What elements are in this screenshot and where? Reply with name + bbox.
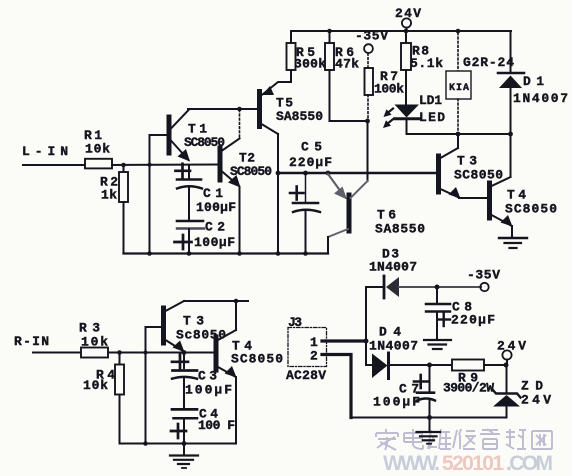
junction dot relay row [456, 132, 461, 137]
svg-text:T3: T3 [457, 154, 477, 169]
watermark URL [383, 452, 554, 475]
ground T4 emitter [499, 238, 527, 248]
svg-text:100 F: 100 F [198, 418, 235, 433]
node 24V right terminal [497, 339, 526, 366]
wire T1 base vertical [149, 135, 151, 254]
svg-text:C5: C5 [301, 140, 322, 155]
svg-text:LED: LED [419, 110, 445, 125]
LED emission arrows [387, 109, 393, 114]
relay KIA box [446, 71, 471, 99]
svg-text:SC8050: SC8050 [454, 168, 503, 183]
connector J3 dashed box [288, 328, 327, 367]
svg-text:100k: 100k [374, 82, 404, 97]
resistor R6 [325, 43, 334, 70]
junction dot C8 tap [435, 285, 440, 290]
zener diode ZD [493, 365, 521, 418]
svg-text:T4: T4 [507, 188, 526, 203]
node -35V right terminal [467, 268, 500, 292]
svg-text:220µF: 220µF [451, 313, 495, 328]
svg-text:WWW.: WWW. [383, 452, 441, 475]
wire R8 top stub [405, 31, 407, 43]
transistor T4 lower-left [216, 330, 237, 444]
wire -35V terminal to R7 (dashed) [367, 54, 369, 69]
junction dot base vertical / lower rail [143, 441, 148, 446]
svg-text:-35V: -35V [355, 29, 388, 44]
junction dot C5 / rail [303, 251, 308, 256]
transistor T3 upper-right [439, 134, 461, 199]
wire T4 collector riser lower [235, 301, 237, 330]
junction dot 24V/top rail [404, 29, 409, 34]
svg-text:1N4007: 1N4007 [369, 260, 417, 275]
svg-text:100µF: 100µF [194, 235, 235, 250]
capacitor C8 [426, 287, 450, 339]
node -35V terminal top [355, 29, 388, 53]
resistor R3 [81, 348, 108, 358]
junction dot pin1 / feed vertical [364, 339, 369, 344]
resistor R2 [119, 165, 128, 254]
wire R-IN input [33, 352, 81, 354]
junction dot base vertical / R-IN wire [144, 351, 148, 355]
resistor R4 [115, 353, 124, 444]
wire lower collector top wire [184, 300, 248, 302]
junction dot base vertical / input wire [148, 163, 152, 167]
svg-text:AC28V: AC28V [286, 368, 326, 383]
svg-text:LD1: LD1 [419, 93, 442, 108]
wire D3/D4 feed vertical [365, 287, 367, 365]
junction dot R6/R7/T6 node [365, 119, 370, 124]
junction dot R4 tap [117, 350, 122, 355]
svg-text:24V: 24V [521, 393, 551, 408]
svg-text:T6: T6 [377, 208, 396, 223]
wire pin 1 lead [322, 339, 366, 342]
wire R6 top stub [329, 31, 331, 43]
junction dot C7 tap [427, 363, 432, 368]
junction dot base vertical / rail [147, 251, 152, 256]
wire R1 to T2 base [112, 164, 219, 167]
wire ground rail upper-left [124, 252, 329, 254]
junction dot R6/top rail [327, 29, 332, 34]
LED LD1 [383, 105, 420, 135]
svg-text:10k: 10k [85, 142, 110, 157]
junction dot C4 / lower rail [182, 441, 187, 446]
wire R8 bottom to LED [405, 70, 407, 104]
svg-text:L-IN: L-IN [22, 144, 68, 159]
wire ground rail lower-left [120, 443, 237, 445]
svg-text:T3: T3 [183, 314, 204, 329]
wire R5 bottom to T5 emitter [290, 70, 292, 82]
svg-text:SA8550: SA8550 [375, 222, 425, 237]
wire T2 collector riser (dotted) [239, 110, 241, 139]
wire T3 base vertical lower [145, 327, 147, 444]
svg-text:3900/2W: 3900/2W [443, 381, 494, 396]
junction dot T6 / mid wire [326, 171, 331, 176]
svg-text:.COM: .COM [506, 452, 554, 475]
wire top supply rail [291, 30, 511, 32]
capacitor C4 [171, 409, 197, 443]
junction dot T2 collector / top wire [237, 107, 242, 112]
junction dot T5 collector / rail [276, 251, 281, 256]
svg-text:1k: 1k [101, 188, 117, 203]
svg-text:D1: D1 [523, 74, 544, 89]
capacitor C3 [172, 353, 197, 409]
capacitor C5 [290, 173, 320, 254]
svg-text:R-IN: R-IN [14, 334, 49, 349]
svg-text:300k: 300k [294, 57, 326, 72]
svg-text:KIA: KIA [449, 83, 469, 94]
junction dot T2 emitter / rail [237, 251, 242, 256]
capacitor C7 [414, 365, 435, 431]
resistor R8 [401, 43, 411, 70]
junction dot C2 / rail [187, 251, 192, 256]
wire node down to T6 collector [367, 121, 369, 181]
capacitor C2 [175, 221, 205, 254]
svg-text:-35V: -35V [467, 268, 500, 283]
transistor T1 [150, 110, 191, 162]
wire T3 emitter to T4 base [459, 197, 488, 199]
transistor T5 [240, 82, 292, 254]
svg-text:520101: 520101 [442, 452, 505, 475]
svg-text:47k: 47k [335, 57, 359, 72]
svg-text:5.1k: 5.1k [410, 56, 443, 71]
svg-text:SC8050: SC8050 [231, 352, 283, 367]
resistor R9 [452, 360, 484, 371]
wire bottom supply rail [351, 417, 506, 419]
wire R9 to 24V node [484, 364, 506, 366]
ground C7 [417, 432, 441, 444]
wire L-IN input [23, 164, 85, 166]
capacitor C1 [176, 164, 203, 220]
wire R7 bottom to node (dashed) [367, 95, 369, 119]
svg-text:24V: 24V [497, 339, 526, 354]
junction dot D1 row [508, 132, 513, 137]
svg-text:1N4007: 1N4007 [369, 339, 418, 354]
junction dot ZD node [504, 363, 509, 368]
svg-text:D4: D4 [379, 325, 401, 340]
svg-text:10k: 10k [83, 378, 108, 393]
junction dot relay/top rail [456, 29, 461, 34]
resistor R5 [287, 43, 296, 70]
transistor T3 lower-left [146, 301, 185, 352]
svg-text:100µF: 100µF [185, 383, 232, 398]
resistor R7 [365, 68, 374, 95]
svg-text:SC8050: SC8050 [230, 164, 272, 179]
wire main mid signal wire [278, 172, 437, 174]
svg-text:24V: 24V [395, 6, 421, 21]
transistor T4 upper-right [490, 134, 513, 237]
wire R3 to T4 base [108, 352, 214, 354]
junction dot C7 / bottom rail [427, 415, 432, 420]
junction dot R2 tap [121, 163, 126, 168]
wire pin 2 lead [322, 355, 351, 418]
relay coil bottom lead (dotted) [457, 99, 459, 132]
svg-text:G2R-24: G2R-24 [463, 55, 514, 70]
node 24V top terminal [402, 18, 411, 31]
junction dot C5 / mid wire [303, 171, 308, 176]
resistor R1 [85, 159, 112, 169]
relay coil top lead (dotted) [457, 33, 459, 71]
diode D1 [498, 31, 524, 134]
svg-text:C2: C2 [205, 220, 225, 235]
transistor T2 [220, 139, 241, 254]
wire T1/T2 collector top wire [188, 108, 258, 110]
svg-text:100µF: 100µF [373, 395, 420, 410]
ground lower-left [170, 444, 198, 469]
svg-text:1N4007: 1N4007 [513, 91, 568, 106]
svg-text:C3: C3 [198, 369, 217, 384]
transistor T6 [328, 174, 368, 254]
junction dot C3 / R-IN wire [182, 350, 187, 355]
svg-text:SA8550: SA8550 [276, 109, 323, 124]
junction dot T5 / mid wire [276, 171, 281, 176]
svg-text:J3: J3 [288, 315, 302, 330]
junction dot T4 collector / top wire [234, 299, 239, 304]
wire R6 bottom leg [330, 70, 368, 121]
diode D3 [366, 276, 481, 298]
svg-text:SC8050: SC8050 [505, 202, 557, 217]
svg-text:C1: C1 [203, 186, 223, 201]
svg-text:100µF: 100µF [196, 200, 236, 215]
diode D4 [366, 353, 452, 379]
wire relay/LED/D1 junction row [407, 133, 511, 135]
svg-text:10k: 10k [81, 335, 108, 350]
svg-text:R3: R3 [79, 321, 100, 336]
svg-text:2: 2 [310, 349, 318, 364]
ground C8 [424, 340, 451, 349]
watermark Chinese characters [376, 429, 552, 450]
svg-text:220µF: 220µF [289, 155, 332, 170]
wire R5 top stub [290, 31, 292, 43]
svg-text:ZD: ZD [521, 379, 543, 394]
